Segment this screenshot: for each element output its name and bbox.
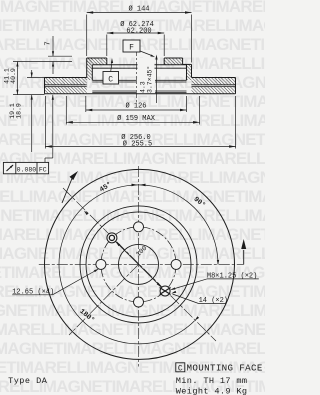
svg-text:Weight 4.9 Kg: Weight 4.9 Kg [176,386,248,395]
svg-text:Type DA: Type DA [8,376,48,386]
svg-text:Min. TH 17 mm: Min. TH 17 mm [176,376,248,386]
svg-text:Ø 144: Ø 144 [128,5,149,14]
svg-text:FC: FC [39,166,47,173]
svg-text:3.7×45°: 3.7×45° [146,66,154,93]
svg-text:4.3: 4.3 [140,81,147,93]
svg-text:MAGNETIMARELLIMAGNETIMARELLIMA: MAGNETIMARELLIMAGNETIMARELLIMAGNETIMAREL… [0,187,265,206]
svg-text:Ø 159 MAX: Ø 159 MAX [117,114,156,123]
svg-text:MAGNETIMARELLIMAGNETIMARELLIMA: MAGNETIMARELLIMAGNETIMARELLIMAGNETIMAREL… [0,54,265,73]
svg-text:C: C [178,364,183,373]
svg-text:MOUNTING FACE: MOUNTING FACE [187,363,263,374]
svg-text:0.080: 0.080 [17,166,37,173]
svg-text:Ø 126: Ø 126 [125,102,146,111]
svg-text:Ø 255.5: Ø 255.5 [123,140,152,149]
svg-text:MAGNETIMARELLIMAGNETIMARELLIMA: MAGNETIMARELLIMAGNETIMARELLIMAGNETIMAREL… [0,244,265,263]
svg-text:C: C [108,75,113,84]
svg-text:7: 7 [45,41,53,45]
svg-text:40.9: 40.9 [10,68,17,84]
svg-text:18.9: 18.9 [16,103,23,119]
svg-text:MAGNETIMARELLIMAGNETIMARELLIMA: MAGNETIMARELLIMAGNETIMARELLIMAGNETIMAREL… [0,225,265,244]
svg-text:F: F [129,44,134,53]
svg-text:MAGNETIMARELLIMAGNETIMARELLIMA: MAGNETIMARELLIMAGNETIMARELLIMAGNETIMAREL… [0,206,265,225]
svg-text:MAGNETIMARELLIMAGNETIMARELLIMA: MAGNETIMARELLIMAGNETIMARELLIMAGNETIMAREL… [0,339,265,358]
svg-text:62.200: 62.200 [126,28,151,36]
